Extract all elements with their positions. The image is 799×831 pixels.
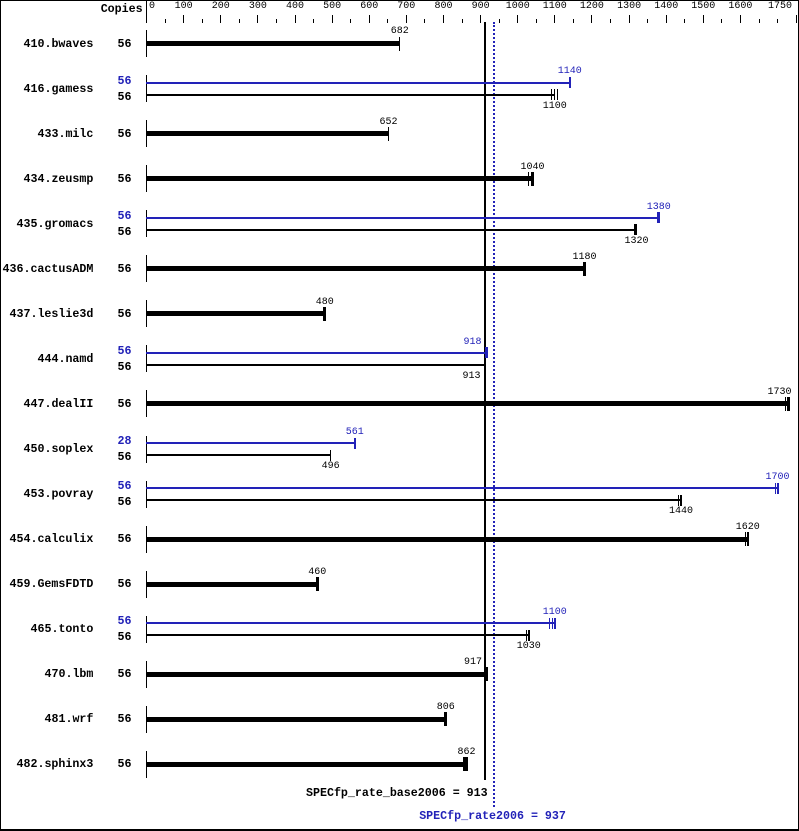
row 481.wrf [45,714,94,726]
SPECfp_rate2006 dotted reference line (937) [493,22,495,807]
row 450.soplex [24,444,94,456]
row 434.zeusmp [24,174,94,186]
row 436.cactusADM [3,264,94,276]
row 454.calculix [10,534,94,546]
row 465.tonto [31,624,94,636]
row 453.povray [24,489,94,501]
row 444.namd [38,354,94,366]
row 437.leslie3d [10,309,94,321]
row 470.lbm [45,669,94,681]
row 416.gamess [24,84,94,96]
axis line [146,1,147,23]
row 410.bwaves [24,39,94,51]
SPECfp_rate_base2006 reference line (913) [484,22,486,780]
row 433.milc [38,129,94,141]
Copies header [101,4,143,16]
row 435.gromacs [17,219,94,231]
SPECfp_rate2006 label [419,811,566,823]
row 447.dealII [24,399,94,411]
SPECfp_rate_base2006 label [306,788,488,800]
axis labels [149,2,155,12]
row 459.GemsFDTD [10,579,94,591]
axis ticks [146,15,147,23]
row 482.sphinx3 [17,759,94,771]
